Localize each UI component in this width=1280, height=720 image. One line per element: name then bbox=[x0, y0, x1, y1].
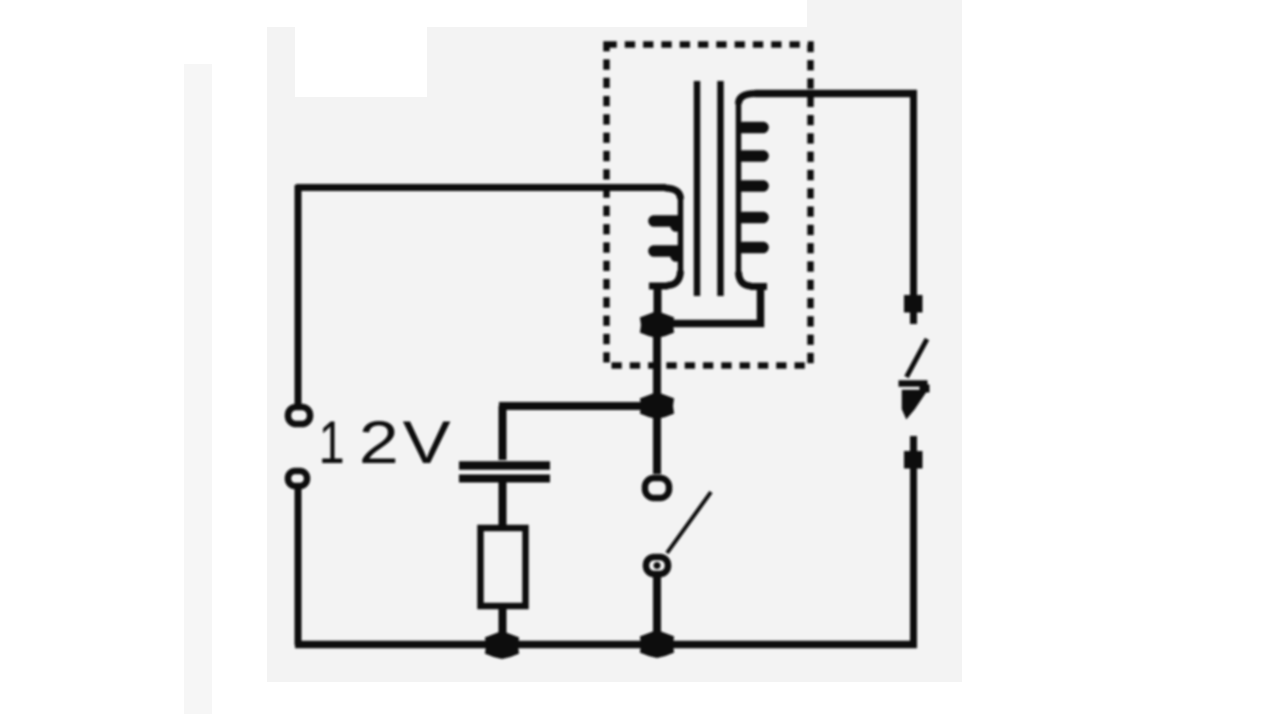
spark gap bottom stub bbox=[910, 436, 917, 452]
battery terminal upper circle bbox=[288, 407, 310, 424]
wire secondary top to right vertical bbox=[755, 90, 917, 98]
spark gap arc bolt line bbox=[907, 339, 928, 377]
secondary top hook bbox=[739, 94, 757, 105]
svg-text:V: V bbox=[403, 410, 451, 477]
switch S1 lever bbox=[667, 492, 711, 553]
spark gap top electrode bbox=[905, 296, 923, 313]
transformer core line left bbox=[694, 81, 701, 296]
resistor R1 bbox=[481, 528, 526, 606]
wire left vertical lower bbox=[295, 489, 302, 645]
wire bottom horizontal bbox=[295, 641, 917, 649]
junction node at switch top bbox=[641, 393, 673, 418]
wire primary bottom to node bbox=[654, 288, 662, 318]
battery terminal lower circle bbox=[288, 471, 307, 486]
secondary tick 4 bbox=[743, 212, 763, 224]
scanned image gray area left strip bbox=[184, 64, 212, 714]
wire capacitor to resistor bbox=[499, 482, 507, 527]
secondary tick 3 bbox=[743, 180, 763, 192]
secondary tick 5 bbox=[743, 242, 763, 254]
secondary tick 2 bbox=[743, 150, 763, 162]
wire node down through dashed box bbox=[653, 333, 661, 398]
secondary bottom bar bbox=[750, 283, 767, 290]
primary tick 1 bbox=[654, 221, 676, 226]
transformer primary winding spine bbox=[678, 195, 684, 276]
wire right vertical lower bbox=[910, 468, 917, 645]
wire right vertical upper bbox=[910, 90, 917, 297]
secondary bottom hook bbox=[739, 272, 752, 286]
capacitor C1 top plate bbox=[459, 461, 550, 470]
spark gap arc arrowhead bbox=[903, 391, 927, 419]
wire resistor to bottom node bbox=[499, 606, 507, 640]
transformer T1 dashed enclosure bbox=[607, 45, 811, 366]
spark gap top stub bbox=[910, 312, 917, 324]
switch S1 bottom contact center dot bbox=[654, 562, 661, 569]
scanned image gray area main bbox=[267, 27, 807, 682]
primary tick 2 bbox=[654, 251, 676, 256]
primary bottom bar bbox=[649, 283, 668, 290]
spark gap bottom electrode bbox=[905, 452, 923, 469]
wire capacitor top vertical bbox=[499, 406, 507, 460]
svg-text:1: 1 bbox=[319, 409, 345, 476]
wire switch node to switch bbox=[653, 410, 661, 474]
switch S1 top contact circle bbox=[645, 478, 669, 498]
secondary tick 1 bbox=[743, 122, 763, 134]
junction node bottom-middle bbox=[641, 631, 673, 657]
spark gap arc bolt bar bbox=[899, 380, 928, 387]
capacitor C1 bottom plate bbox=[459, 475, 550, 483]
junction node inside transformer bbox=[641, 312, 673, 337]
white notch top-left bbox=[295, 27, 427, 97]
wire top-left horizontal from source to primary bbox=[296, 184, 666, 191]
wire switch to bottom node bbox=[653, 577, 661, 640]
svg-text:2: 2 bbox=[359, 410, 399, 477]
wire capacitor top horizontal to switch node bbox=[499, 402, 657, 410]
transformer core line right bbox=[717, 81, 724, 296]
wire secondary bottom L to node bbox=[665, 288, 761, 324]
wire left vertical upper bbox=[295, 185, 302, 404]
spark gap arc bolt nub bbox=[920, 385, 929, 392]
transformer secondary winding spine bbox=[736, 100, 742, 278]
switch S1 bottom contact circle bbox=[646, 557, 668, 574]
primary bottom hook bbox=[667, 271, 681, 286]
primary top hook bbox=[665, 188, 681, 199]
junction node bottom-left bbox=[486, 632, 518, 658]
